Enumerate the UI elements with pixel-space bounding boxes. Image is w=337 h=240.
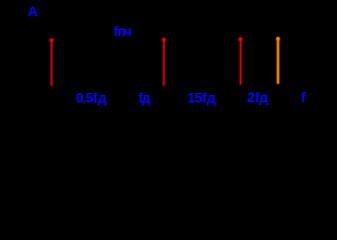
svg-text:f: f: [301, 89, 306, 105]
svg-text:fд: fд: [138, 89, 151, 105]
orange dot at 2fд+fпч: [276, 37, 280, 41]
svg-text:2fд: 2fд: [247, 89, 268, 105]
spectral line at fд+fпч: [163, 40, 165, 86]
svg-text:A: A: [28, 3, 38, 19]
svg-text:0.5fд: 0.5fд: [76, 89, 107, 105]
spectral line at fпч: [51, 40, 53, 86]
svg-text:1.5fд: 1.5fд: [187, 89, 215, 105]
dot at fд+fпч: [162, 38, 166, 42]
dot at fпч: [50, 38, 54, 42]
dot at 2fд-fпч: [239, 37, 243, 41]
svg-text:пч: пч: [117, 23, 131, 39]
spectral line at 2fд-fпч: [240, 39, 242, 84]
orange spectral line at 2fд+fпч: [277, 39, 280, 84]
